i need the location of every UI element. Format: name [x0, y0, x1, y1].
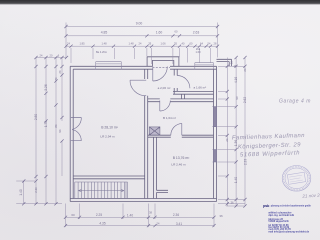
svg-text:2.26: 2.26 — [44, 84, 48, 90]
svg-text:26: 26 — [225, 138, 229, 142]
svg-text:2.62: 2.62 — [243, 97, 247, 103]
svg-text:51688 wipperfürth: 51688 wipperfürth — [268, 220, 289, 223]
svg-text:2.33: 2.33 — [243, 159, 247, 165]
svg-text:9.00: 9.00 — [136, 21, 143, 25]
svg-text:B 28,10 m²: B 28,10 m² — [101, 126, 118, 130]
svg-text:1.76: 1.76 — [44, 121, 48, 127]
svg-text:4.85: 4.85 — [101, 31, 108, 35]
svg-text:2.25: 2.25 — [96, 213, 102, 217]
svg-text:2.80: 2.80 — [34, 114, 38, 120]
svg-text:2.36: 2.36 — [34, 187, 38, 193]
svg-text:4.35: 4.35 — [99, 221, 105, 225]
svg-text:56: 56 — [230, 61, 234, 65]
svg-text:LR 2,46 m: LR 2,46 m — [171, 162, 186, 166]
svg-text:60: 60 — [71, 213, 75, 217]
svg-text:2.36: 2.36 — [173, 213, 179, 217]
svg-text:planung schröder bauelemente g: planung schröder bauelemente gmbh — [271, 205, 312, 208]
svg-text:Garage 4 m: Garage 4 m — [279, 99, 311, 105]
svg-text:1.48: 1.48 — [101, 42, 107, 46]
svg-text:36: 36 — [219, 214, 223, 218]
svg-text:LR 2,94 m: LR 2,94 m — [100, 135, 115, 139]
svg-text:96: 96 — [58, 129, 62, 133]
svg-text:3.41: 3.41 — [176, 222, 182, 226]
svg-text:36: 36 — [230, 201, 234, 205]
svg-text:4.16: 4.16 — [234, 77, 238, 83]
svg-text:86: 86 — [54, 124, 58, 128]
svg-text:26: 26 — [243, 68, 247, 72]
svg-text:Ba 4.26m: Ba 4.26m — [96, 50, 107, 54]
svg-text:1.40: 1.40 — [234, 177, 238, 183]
svg-text:1.85: 1.85 — [79, 42, 85, 46]
svg-text:1.48: 1.48 — [128, 42, 134, 46]
svg-text:a 2,06 m²: a 2,06 m² — [158, 86, 171, 90]
svg-text:1.40: 1.40 — [127, 214, 133, 218]
svg-text:1.60: 1.60 — [195, 50, 201, 54]
svg-text:90: 90 — [235, 96, 239, 100]
svg-text:1.06: 1.06 — [160, 42, 166, 46]
svg-text:26: 26 — [58, 70, 62, 74]
svg-text:psb: psb — [263, 203, 270, 208]
svg-text:B 1,64 m²: B 1,64 m² — [163, 116, 176, 120]
svg-text:dipl.-ing. architekt bdb: dipl.-ing. architekt bdb — [268, 214, 294, 217]
svg-text:mail info@psb-planung-architek: mail info@psb-planung-architekt.de — [268, 231, 309, 234]
svg-text:76: 76 — [54, 77, 58, 81]
svg-text:B 13,76 m²: B 13,76 m² — [173, 156, 190, 160]
svg-text:1.40: 1.40 — [19, 189, 23, 195]
svg-text:a 1,66 m²: a 1,66 m² — [193, 86, 206, 90]
svg-text:2.63: 2.63 — [193, 31, 200, 35]
svg-text:1.60: 1.60 — [156, 31, 163, 35]
